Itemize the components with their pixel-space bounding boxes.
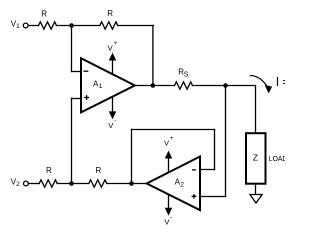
svg-text:+: + bbox=[170, 135, 174, 142]
svg-text:-: - bbox=[170, 214, 172, 221]
svg-text:S: S bbox=[184, 72, 189, 79]
svg-text:R: R bbox=[41, 10, 47, 19]
svg-text:I =: I = bbox=[276, 75, 285, 89]
svg-text:-: - bbox=[114, 118, 116, 125]
svg-text:R: R bbox=[46, 166, 52, 175]
svg-text:+: + bbox=[114, 40, 118, 47]
svg-text:1: 1 bbox=[99, 83, 103, 90]
svg-text:R: R bbox=[96, 166, 102, 175]
svg-text:1: 1 bbox=[16, 23, 20, 30]
svg-text:R: R bbox=[107, 9, 113, 18]
svg-text:2: 2 bbox=[16, 181, 20, 188]
svg-text:2: 2 bbox=[180, 181, 184, 188]
svg-text:Z: Z bbox=[253, 152, 258, 162]
svg-text:LOAD: LOAD bbox=[269, 154, 285, 163]
